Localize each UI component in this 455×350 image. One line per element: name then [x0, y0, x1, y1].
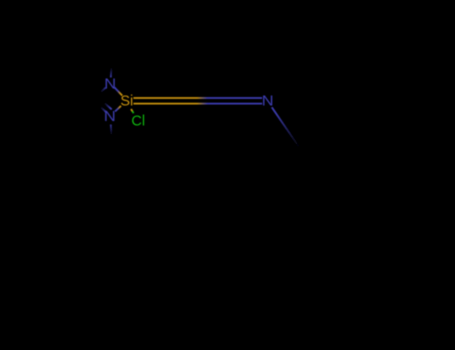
atom label N5 (imine nitrogen, right): [262, 93, 274, 109]
bond C4=N3 double bond inner line: [99, 98, 112, 110]
atom label N3 (ring nitrogen, bottom): [104, 109, 116, 125]
bond C4-N1 (ring): [93, 88, 106, 100]
atom label N1 (ring nitrogen, top): [104, 76, 116, 92]
bond N1-Si (ring): [114, 87, 122, 95]
bond Si=N5 double bond lower line: [133, 103, 262, 105]
svg-text:Cl: Cl: [131, 114, 145, 130]
bond Si=N5 double bond upper line: [133, 97, 262, 99]
svg-text:N: N: [104, 109, 116, 125]
bond Si-Cl: [131, 109, 134, 113]
svg-text:N: N: [262, 93, 274, 109]
svg-text:N: N: [104, 76, 116, 92]
bond Si-N3 (ring): [115, 106, 121, 112]
bond N5-R substituent (fading): [272, 107, 310, 163]
bond N3-CH3 methyl: [111, 125, 112, 141]
bond N1-CH3 methyl: [111, 59, 112, 77]
bond C4=N3 double bond main line: [93, 100, 106, 112]
svg-text:Si: Si: [120, 94, 133, 110]
